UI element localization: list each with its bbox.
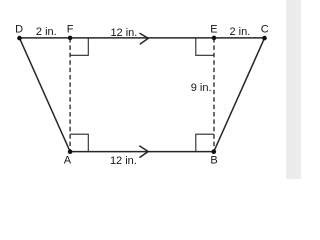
svg-text:2 in.: 2 in. [230,26,251,38]
svg-text:F: F [67,23,74,35]
point C [262,36,267,41]
point E [212,36,217,41]
svg-text:A: A [64,155,72,167]
svg-text:2 in.: 2 in. [36,26,57,38]
wire dashed FA [69,38,71,152]
right angle mark at F [70,38,88,55]
wire top line DC [20,37,265,39]
svg-text:B: B [210,155,217,167]
svg-text:12 in.: 12 in. [110,155,137,167]
right angle mark at E [196,38,214,55]
parallel arrow on top line [140,33,149,44]
wire dashed EB [213,38,215,152]
svg-text:E: E [210,23,217,35]
svg-text:9 in.: 9 in. [191,82,212,94]
point B [212,149,217,154]
point D [17,36,22,41]
svg-text:12 in.: 12 in. [110,27,137,39]
svg-text:D: D [15,23,23,35]
point A [68,149,73,154]
wire right slant CB [214,38,265,152]
parallel arrow on bottom line [139,146,148,158]
gray side band [286,0,301,179]
wire bottom line AB [70,151,214,153]
right angle mark at B [196,134,214,151]
svg-text:C: C [261,23,269,35]
wire left slant DA [20,38,71,152]
point F [68,36,73,41]
right angle mark at A [70,134,88,151]
